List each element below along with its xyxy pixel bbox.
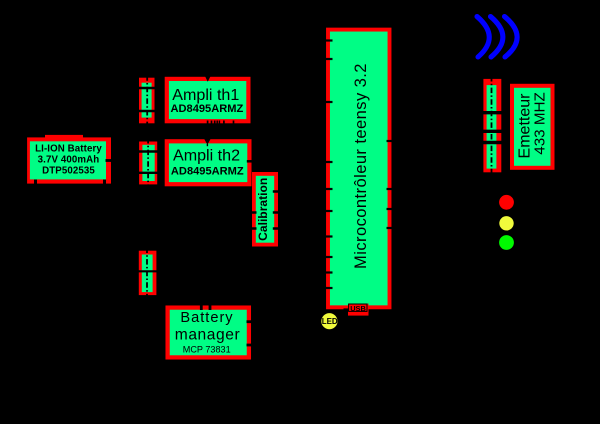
wire arrow into U2 top	[204, 139, 211, 145]
wire U3 right pins	[247, 322, 258, 345]
svg-text:Calibration: Calibration	[256, 178, 270, 241]
antenna wave 1	[477, 17, 489, 58]
wire J4 pin3	[477, 141, 513, 144]
wire U2 right	[247, 160, 256, 163]
svg-text:AD8495ARMZ: AD8495ARMZ	[171, 103, 244, 115]
wire battery bottom right	[103, 180, 106, 189]
calibration block	[254, 174, 276, 245]
LED D4 green	[499, 235, 514, 250]
connector J4 (emetteur)	[483, 76, 501, 176]
connector J3 (battery manager)	[139, 248, 157, 299]
svg-text:USB: USB	[350, 304, 366, 313]
wire J1 pin1	[133, 87, 170, 89]
LED D1 (on board)	[321, 313, 338, 329]
svg-text:3.7V 400mAh: 3.7V 400mAh	[38, 154, 100, 165]
antenna wave 3	[505, 17, 518, 58]
amplifier U2 Ampli th2	[167, 141, 250, 184]
wire arrow into U1 top	[205, 75, 211, 82]
svg-text:Microcontrôleur teensy 3.2: Microcontrôleur teensy 3.2	[352, 63, 370, 269]
svg-text:433 MHZ: 433 MHZ	[531, 92, 548, 154]
svg-text:DTP502535: DTP502535	[42, 166, 95, 177]
USB port	[348, 304, 369, 316]
antenna wave 2	[491, 17, 503, 58]
svg-text:LI-ION Battery: LI-ION Battery	[35, 143, 102, 154]
wire U4 left pins	[324, 41, 333, 289]
transmitter U5 Emetteur 433 MHZ	[512, 86, 553, 168]
wire J4 pin1	[477, 111, 513, 114]
svg-text:manager: manager	[175, 326, 240, 343]
wire red stub above battery	[45, 135, 83, 138]
wire U1 bottom pins	[208, 121, 234, 125]
wire into USB	[344, 308, 350, 310]
wire calibration right pins	[273, 192, 282, 229]
svg-text:Battery: Battery	[180, 310, 233, 326]
wire J3 pin	[133, 270, 162, 272]
connector J2 (th2)	[139, 138, 157, 188]
wire J1 pin2	[133, 110, 170, 112]
wire J2 pin1	[133, 150, 170, 152]
amplifier U1 Ampli th1	[167, 79, 249, 121]
battery B1 LI-ION	[27, 137, 111, 183]
wire U4 right pins	[387, 141, 396, 228]
svg-text:AD8495ARMZ: AD8495ARMZ	[171, 166, 244, 178]
microcontroller U4 teensy 3.2	[328, 30, 390, 308]
wire battery right	[106, 159, 115, 162]
battery manager U3	[168, 308, 249, 358]
LED D2 red	[499, 195, 514, 210]
wire J4 pin2	[477, 130, 513, 133]
wire battery bottom left	[34, 180, 37, 189]
wire U3 top pins	[201, 301, 210, 310]
svg-text:Ampli th2: Ampli th2	[173, 147, 240, 165]
LED D3 yellow	[499, 216, 513, 230]
wire calibration left pins	[249, 213, 257, 229]
connector J1 (th1)	[139, 75, 155, 126]
svg-text:Ampli th1: Ampli th1	[172, 86, 239, 104]
svg-text:MCP 73831: MCP 73831	[183, 345, 231, 355]
wire J2 pin2	[133, 172, 170, 174]
svg-text:LED: LED	[322, 317, 338, 326]
